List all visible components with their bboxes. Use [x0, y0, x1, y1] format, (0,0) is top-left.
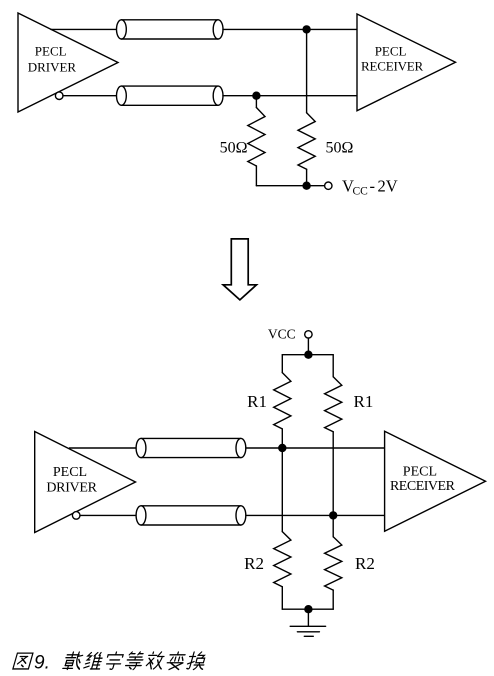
op-amp U1 PECL driver (top): [18, 13, 118, 112]
arrow (transformation, hollow down-arrow): [223, 239, 256, 300]
op-amp U2 PECL receiver (top): [357, 14, 456, 111]
resistor R2 right: [325, 515, 342, 609]
transmission line TL2 (top complement line): [117, 86, 224, 105]
node junction ground rail: [304, 605, 312, 613]
svg-text:R2: R2: [355, 554, 375, 573]
wire ground rail: [282, 608, 333, 610]
caption glyph huan: [186, 652, 208, 670]
node junction top line: [302, 25, 310, 33]
caption glyph tu (figure): [13, 653, 33, 669]
wire node to R right (vertical): [306, 29, 308, 112]
node junction upper line (R1 left): [278, 444, 286, 452]
resistor R1 left: [274, 355, 291, 448]
wire TL1 to receiver+: [223, 28, 357, 30]
wire driver- to TL4: [80, 514, 136, 516]
svg-text:DRIVER: DRIVER: [28, 59, 77, 74]
op-amp U4 PECL receiver (bottom): [385, 431, 486, 531]
wire TL2 to receiver-: [223, 95, 357, 97]
resistor R2 left: [274, 448, 291, 609]
node junction VCC rail: [304, 351, 312, 359]
wire node to terminal: [307, 185, 325, 187]
svg-text:PECL: PECL: [35, 44, 67, 59]
wire VCC rail: [282, 354, 333, 356]
transmission line TL4 (bottom complement line): [136, 506, 246, 525]
wire driver- to TL2: [63, 95, 117, 97]
resistor 50ohm right (top circuit): [298, 113, 315, 186]
node junction lower line: [252, 92, 260, 100]
wire bottom node (top circuit): [256, 185, 306, 187]
svg-text:-: -: [370, 177, 376, 196]
terminal Vcc-2V (open circle): [325, 182, 332, 189]
caption glyph dai: [63, 652, 85, 670]
svg-text:CC: CC: [353, 186, 369, 198]
wire VCC stem: [307, 338, 309, 355]
svg-text:50Ω: 50Ω: [220, 139, 248, 156]
caption glyph xiao: [145, 652, 166, 669]
wire TL3 to receiver+: [246, 447, 385, 449]
wire driver+ to TL3: [70, 447, 137, 449]
op-amp U3 PECL driver (bottom): [35, 432, 136, 533]
svg-text:PECL: PECL: [53, 465, 87, 480]
wire ground stem: [307, 609, 309, 626]
svg-text:PECL: PECL: [403, 465, 437, 480]
svg-text:R1: R1: [247, 392, 267, 411]
transmission line TL3 (bottom true line): [136, 438, 246, 457]
caption glyph wei: [83, 653, 104, 669]
inversion bubble (top driver): [55, 92, 63, 100]
resistor 50ohm left (top circuit): [248, 96, 265, 186]
svg-text:R2: R2: [244, 554, 264, 573]
wire driver+ to TL1: [51, 28, 117, 30]
svg-text:PECL: PECL: [375, 44, 407, 59]
node junction lower line (R1 right): [329, 511, 337, 519]
ground symbol: [290, 626, 325, 636]
wire TL4 to receiver-: [246, 514, 385, 516]
label Vcc - 2V: [342, 177, 398, 198]
svg-text:RECEIVER: RECEIVER: [390, 479, 456, 494]
transmission line TL1 (top true line): [117, 20, 224, 39]
svg-text:9.: 9.: [34, 653, 50, 674]
svg-text:2V: 2V: [378, 177, 398, 196]
svg-text:50Ω: 50Ω: [326, 139, 354, 156]
node junction bottom (top circuit): [302, 182, 310, 190]
inversion bubble (bottom driver): [72, 512, 80, 520]
resistor R1 right: [325, 355, 342, 516]
svg-text:DRIVER: DRIVER: [46, 480, 97, 495]
svg-text:VCC: VCC: [268, 327, 296, 342]
terminal VCC (open circle): [305, 331, 312, 338]
svg-text:RECEIVER: RECEIVER: [361, 59, 423, 74]
caption glyph deng: [125, 652, 146, 670]
caption figure label: [13, 652, 208, 674]
svg-text:R1: R1: [354, 392, 374, 411]
caption glyph ning: [104, 652, 124, 669]
caption glyph bian: [165, 652, 186, 670]
